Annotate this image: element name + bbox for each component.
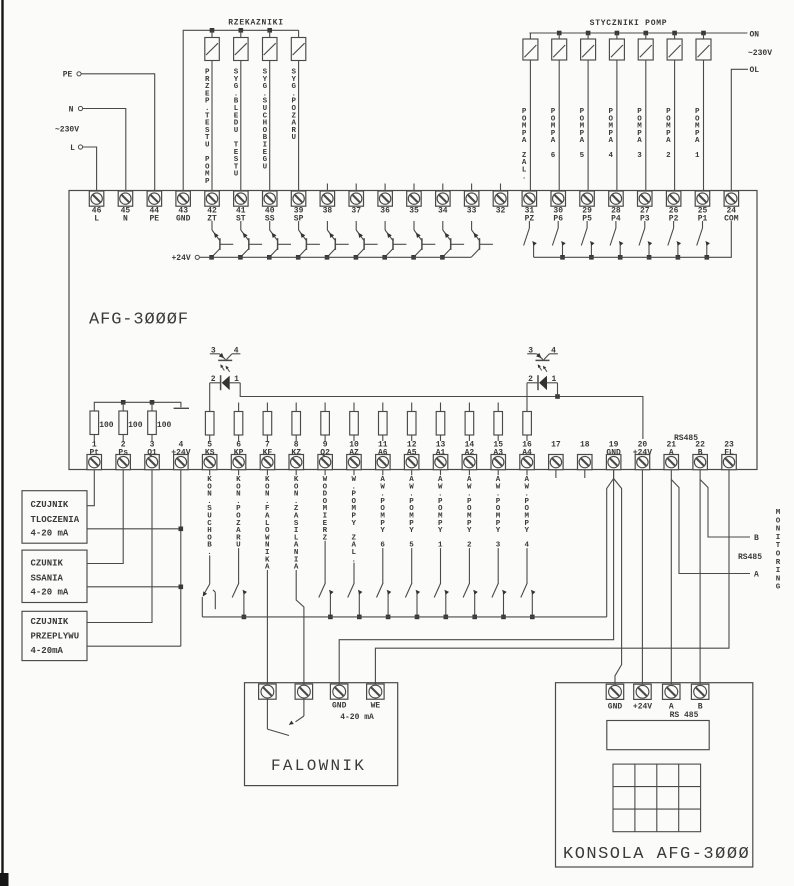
wire terminal 7 KF to FALOWNIK bbox=[266, 470, 268, 684]
terminal 24 COM bbox=[724, 191, 739, 224]
svg-text:KON.FALOWNIKA: KON.FALOWNIKA bbox=[265, 476, 270, 572]
wire terminal 22 B to console bbox=[699, 470, 701, 685]
label console A bbox=[669, 703, 674, 712]
switch contact KON.SUCHOB. (NC) bbox=[202, 584, 215, 617]
svg-text:4-20 mA: 4-20 mA bbox=[31, 529, 69, 539]
wire optocoupler U2 pin1 drop bbox=[557, 383, 559, 397]
label STYCZNIKI POMP bbox=[590, 19, 668, 28]
svg-text:B: B bbox=[698, 448, 703, 457]
wire bus to terminal 19 GND bbox=[607, 470, 614, 617]
wire input A6 terminal 11 bbox=[382, 470, 384, 584]
output transistor Q40 at terminal 40 bbox=[267, 221, 291, 260]
svg-text:A1: A1 bbox=[436, 448, 446, 457]
svg-text:SSANIA: SSANIA bbox=[31, 574, 64, 584]
svg-text:FL: FL bbox=[724, 448, 734, 457]
wire input A1 terminal 13 bbox=[440, 470, 442, 584]
relay contact P5 at terminal 29 bbox=[581, 221, 594, 260]
terminal 25 P1 bbox=[695, 191, 710, 224]
terminal 4 +24V bbox=[171, 441, 190, 470]
svg-text:WE: WE bbox=[371, 702, 381, 711]
output transistor Q42 at terminal 42 bbox=[209, 221, 233, 260]
wire terminal 1 Pt to sensor 1 bbox=[87, 470, 94, 506]
wire stub below terminal 18 bbox=[584, 470, 586, 478]
wire input KS terminal 5 bbox=[209, 470, 211, 584]
svg-text:37: 37 bbox=[351, 207, 361, 216]
terminal 5 KS bbox=[202, 441, 217, 470]
relay contact PZ at terminal 31 bbox=[524, 221, 537, 257]
terminal 8 KZ bbox=[289, 441, 304, 470]
svg-text:AFG-3ØØØF: AFG-3ØØØF bbox=[89, 311, 189, 330]
terminal 10 AZ bbox=[347, 441, 362, 470]
label monitoring B bbox=[754, 534, 759, 543]
label SYG.BLEDU TESTU bbox=[234, 69, 239, 179]
svg-text:PE: PE bbox=[149, 215, 159, 224]
label POMPA 1 bbox=[695, 108, 700, 160]
label POMPA 6 bbox=[551, 108, 556, 160]
output transistor Q39 at terminal 39 bbox=[296, 221, 320, 260]
output transistor Q34 at terminal 34 bbox=[440, 221, 464, 260]
resistor R3 100 at terminal 3 bbox=[148, 411, 172, 441]
console keypad 4x3 bbox=[613, 764, 701, 832]
wire stub below terminal 17 bbox=[555, 470, 557, 478]
svg-text:+24V: +24V bbox=[633, 703, 652, 712]
svg-text:100: 100 bbox=[128, 421, 143, 430]
resistor R13 input pull-up terminal 13 bbox=[436, 403, 445, 442]
terminal 23 FL bbox=[722, 441, 737, 470]
label POMPA 5 bbox=[580, 108, 585, 160]
svg-text:100: 100 bbox=[157, 421, 172, 430]
wire input Q2 terminal 9 bbox=[324, 470, 326, 584]
label POMPA 4 bbox=[608, 108, 613, 160]
relay contact P6 at terminal 30 bbox=[552, 221, 565, 260]
terminal 16 A4 bbox=[520, 441, 535, 470]
label KONSOLA AFG-3000 bbox=[563, 845, 750, 864]
wire L to terminal 46 bbox=[83, 147, 97, 191]
svg-text:CZUJNIK: CZUJNIK bbox=[31, 617, 69, 627]
node N bbox=[69, 106, 83, 115]
label RZEKAZNIKI bbox=[228, 19, 284, 28]
svg-text:PE: PE bbox=[63, 71, 73, 80]
svg-text:GND: GND bbox=[332, 702, 347, 711]
svg-text:POMPA 3: POMPA 3 bbox=[637, 108, 642, 160]
switch contact KON.POZARU bbox=[232, 584, 247, 620]
inverter FALOWNIK box bbox=[245, 683, 398, 786]
svg-text:MONITORING: MONITORING bbox=[776, 509, 781, 592]
svg-text:Pt: Pt bbox=[89, 448, 99, 457]
svg-text:POMPA 2: POMPA 2 bbox=[666, 108, 671, 160]
label POMPA 2 bbox=[666, 108, 671, 160]
terminal 30 P6 bbox=[551, 191, 566, 224]
terminal 19 GND bbox=[606, 441, 621, 470]
svg-text:KON.ZASILANIA: KON.ZASILANIA bbox=[294, 476, 299, 572]
label console RS 485 bbox=[670, 711, 699, 720]
console LCD display bbox=[607, 721, 709, 750]
wire contactor bus ~230V ON bbox=[529, 32, 747, 34]
terminal 17 bbox=[549, 441, 564, 470]
contactor coil POMPA 5 bbox=[581, 31, 596, 191]
svg-text:35: 35 bbox=[409, 207, 419, 216]
switch contact AW.POMPY 5 bbox=[405, 584, 420, 620]
svg-text:A: A bbox=[754, 571, 759, 580]
relay K4 SYG.POZARU bbox=[291, 30, 306, 191]
switch contact AW.POMPY 2 bbox=[463, 584, 478, 620]
terminal 45 N bbox=[118, 191, 133, 224]
svg-text:A4: A4 bbox=[522, 448, 532, 457]
terminal 40 SS bbox=[263, 191, 278, 224]
FALOWNIK terminal 1 bbox=[259, 684, 277, 699]
svg-text:38: 38 bbox=[323, 207, 333, 216]
resistor R14 input pull-up terminal 14 bbox=[465, 403, 474, 442]
wire input A5 terminal 12 bbox=[411, 470, 413, 584]
label KON.FALOWNIKA bbox=[264, 475, 270, 571]
terminal 37 bbox=[349, 191, 364, 216]
label KON.SUCHOB. bbox=[207, 475, 213, 557]
terminal 21 A bbox=[664, 441, 679, 470]
terminal 36 bbox=[378, 191, 393, 216]
label monitoring A bbox=[754, 571, 759, 580]
wire relay bus from terminal 43 GND bbox=[183, 30, 298, 191]
controller AFG-3000F outline bbox=[69, 191, 757, 470]
svg-text:N: N bbox=[69, 106, 74, 115]
wire terminal 3 Q1 to sensor 3 bbox=[87, 470, 152, 623]
wire stub above terminal 34 bbox=[442, 184, 444, 192]
svg-text:Q1: Q1 bbox=[147, 448, 157, 457]
node L bbox=[70, 144, 83, 153]
contactor coil POMPA 3 bbox=[638, 31, 653, 191]
svg-text:TLOCZENIA: TLOCZENIA bbox=[31, 515, 80, 525]
output transistor Q38 at terminal 38 bbox=[325, 221, 349, 260]
terminal 28 P4 bbox=[609, 191, 624, 224]
svg-text:RS485: RS485 bbox=[738, 553, 762, 562]
label console B bbox=[698, 703, 703, 712]
label AW.POMPY 4 bbox=[524, 475, 530, 550]
svg-text:STYCZNIKI POMP: STYCZNIKI POMP bbox=[590, 19, 668, 28]
wire input AZ terminal 10 bbox=[353, 470, 355, 584]
terminal 27 P3 bbox=[638, 191, 653, 224]
svg-text:SYG.POZARU: SYG.POZARU bbox=[292, 69, 297, 143]
FALOWNIK terminal 4 bbox=[367, 684, 385, 699]
svg-text:KZ: KZ bbox=[291, 448, 301, 457]
svg-text:OL: OL bbox=[750, 66, 760, 75]
terminal 34 bbox=[436, 191, 451, 216]
terminal 42 ZT bbox=[205, 191, 220, 224]
svg-text:POMPA ZAL.: POMPA ZAL. bbox=[522, 108, 527, 182]
terminal 33 bbox=[464, 191, 479, 216]
svg-text:KON.SUCHOB.: KON.SUCHOB. bbox=[207, 476, 212, 557]
label ~230V left bbox=[55, 126, 79, 135]
label POMPA ZAL. bbox=[522, 108, 527, 182]
svg-text:4-20 mA: 4-20 mA bbox=[340, 713, 374, 722]
terminal 9 Q2 bbox=[318, 441, 333, 470]
svg-text:17: 17 bbox=[551, 441, 561, 450]
wire supply to sensor 1 bbox=[87, 527, 183, 532]
svg-text:FALOWNIK: FALOWNIK bbox=[271, 757, 366, 775]
resistor R5 input pull-up terminal 5 bbox=[205, 412, 214, 442]
switch contact AW.POMPY 4 bbox=[521, 584, 536, 620]
terminal 44 PE bbox=[147, 191, 162, 224]
sensor box CZUNIK SSANIA bbox=[22, 550, 87, 602]
wire optocoupler LED supply to terminal 20 +24V bbox=[240, 383, 643, 439]
label SYG.POZARU bbox=[292, 69, 297, 143]
svg-text:L: L bbox=[94, 215, 99, 224]
relay contact P1 at terminal 25 bbox=[697, 221, 710, 260]
label AW.POMPY 1 bbox=[437, 475, 443, 550]
wire terminal 19 GND to FALOWNIK GND bbox=[339, 470, 613, 684]
svg-text:GND: GND bbox=[608, 703, 623, 712]
terminal 7 KF bbox=[260, 441, 275, 470]
terminal 13 A1 bbox=[433, 441, 448, 470]
label RS485 (terminals 21-22) bbox=[674, 434, 698, 443]
svg-text:A3: A3 bbox=[493, 448, 503, 457]
svg-text:AW.POMPY 3: AW.POMPY 3 bbox=[496, 476, 501, 550]
label FALOWNIK bbox=[271, 757, 366, 775]
svg-text:KONSOLA AFG-3ØØØ: KONSOLA AFG-3ØØØ bbox=[563, 845, 750, 864]
switch contact AW.POMPY 1 bbox=[434, 584, 449, 620]
svg-text:32: 32 bbox=[496, 207, 506, 216]
svg-text:100: 100 bbox=[99, 421, 114, 430]
terminal 39 SP bbox=[291, 191, 306, 224]
label WODOMIERZ bbox=[322, 475, 328, 542]
terminal 22 B bbox=[693, 441, 708, 470]
console terminal GND bbox=[606, 684, 624, 699]
label console +24V bbox=[633, 703, 652, 712]
svg-text:AW.POMPY 5: AW.POMPY 5 bbox=[409, 476, 414, 550]
svg-text:KF: KF bbox=[263, 448, 273, 457]
wire stub above terminal 36 bbox=[384, 184, 386, 192]
svg-text:RZEKAZNIKI: RZEKAZNIKI bbox=[228, 19, 284, 28]
console KONSOLA AFG-3000 box bbox=[556, 683, 753, 867]
wire stub above terminal 38 bbox=[326, 184, 328, 192]
svg-text:L: L bbox=[70, 144, 75, 153]
svg-text:AW.POMPY 1: AW.POMPY 1 bbox=[438, 476, 443, 550]
svg-text:Q2: Q2 bbox=[320, 448, 330, 457]
wire input A4 terminal 16 bbox=[526, 470, 528, 584]
wire terminal 8 KZ to FALOWNIK bbox=[296, 470, 304, 684]
FALOWNIK terminal 3 bbox=[330, 684, 348, 699]
wire FALOWNIK WE to terminal 23 FL bbox=[375, 470, 729, 684]
label ON bbox=[750, 31, 760, 40]
svg-text:PRZEPLYWU: PRZEPLYWU bbox=[31, 632, 80, 642]
svg-text:4-20mA: 4-20mA bbox=[31, 646, 64, 656]
sensor box CZUJNIK TLOCZENIA bbox=[22, 491, 87, 544]
svg-text:33: 33 bbox=[467, 207, 477, 216]
resistor R9 input pull-up terminal 9 bbox=[321, 403, 330, 442]
switch contact WODOMIERZ bbox=[319, 584, 334, 620]
terminal 31 PZ bbox=[522, 191, 537, 224]
label AW.POMPY 5 bbox=[409, 475, 415, 550]
scan border left edge bbox=[0, 0, 9, 886]
wire terminal 4 +24V sensor supply bbox=[180, 470, 182, 647]
relay contact P2 at terminal 26 bbox=[668, 221, 681, 260]
label PRZEP.TESTU POMP bbox=[205, 69, 210, 187]
svg-text:+24V: +24V bbox=[172, 254, 191, 263]
svg-text:POMPA 1: POMPA 1 bbox=[695, 108, 700, 160]
terminal 35 bbox=[407, 191, 422, 216]
label FALOWNIK WE bbox=[371, 702, 381, 711]
svg-text:A2: A2 bbox=[465, 448, 475, 457]
terminal 38 bbox=[320, 191, 335, 216]
relay K3 SYG.SUCHOBIEGU bbox=[263, 28, 278, 191]
terminal 29 P5 bbox=[580, 191, 595, 224]
label MONITORING bbox=[776, 509, 781, 592]
label ~230V right bbox=[748, 49, 772, 58]
node PE bbox=[63, 71, 81, 80]
svg-text:AW.POMPY 2: AW.POMPY 2 bbox=[467, 476, 472, 550]
label AW.POMPY 3 bbox=[495, 475, 501, 550]
resistor R16 input pull-up terminal 16 bbox=[523, 412, 532, 442]
wire stub above terminal 32 bbox=[500, 184, 502, 192]
wire terminal 19 GND to console GND bbox=[614, 479, 622, 685]
label console GND bbox=[608, 703, 623, 712]
relay K1 PRZEP.TESTU POMP bbox=[205, 28, 220, 191]
svg-text:A6: A6 bbox=[378, 448, 388, 457]
output transistor Q37 at terminal 37 bbox=[354, 221, 378, 260]
resistor R12 input pull-up terminal 12 bbox=[407, 403, 416, 442]
label SYG.SUCHOBIEGU bbox=[263, 69, 268, 172]
svg-text:~230V: ~230V bbox=[748, 49, 772, 58]
svg-text:PRZEP.TESTU POMP: PRZEP.TESTU POMP bbox=[205, 69, 210, 187]
svg-text:KP: KP bbox=[234, 448, 244, 457]
svg-text:CZUJNIK: CZUJNIK bbox=[31, 500, 69, 510]
resistor R6 input pull-up terminal 6 bbox=[234, 403, 243, 442]
terminal 11 A6 bbox=[376, 441, 391, 470]
wire terminal 2 Ps to sensor 2 bbox=[87, 470, 123, 564]
wire supply to sensor 2 bbox=[87, 585, 183, 590]
svg-text:4-20 mA: 4-20 mA bbox=[31, 588, 69, 598]
resistor R7 input pull-up terminal 7 bbox=[263, 403, 272, 442]
resistor R11 input pull-up terminal 11 bbox=[379, 403, 388, 442]
switch contact W.POMPY ZAL. bbox=[348, 584, 363, 620]
terminal 26 P2 bbox=[666, 191, 681, 224]
label FALOWNIK GND bbox=[332, 702, 347, 711]
svg-text:+24V: +24V bbox=[171, 448, 190, 457]
label AW.POMPY 6 bbox=[380, 475, 386, 550]
svg-text:B: B bbox=[698, 703, 703, 712]
svg-text:W.POMPY ZAL.: W.POMPY ZAL. bbox=[352, 476, 357, 564]
wire OL to terminal 24 bbox=[731, 69, 748, 191]
wire input A2 terminal 14 bbox=[468, 470, 470, 584]
svg-text:36: 36 bbox=[380, 207, 390, 216]
resistor R8 input pull-up terminal 8 bbox=[292, 403, 301, 442]
contactor coil POMPA 2 bbox=[667, 31, 682, 191]
svg-text:34: 34 bbox=[438, 207, 448, 216]
wire input A3 terminal 15 bbox=[497, 470, 499, 584]
switch inside FALOWNIK bbox=[267, 699, 304, 735]
label KON.ZASILANIA bbox=[293, 475, 299, 571]
svg-text:ON: ON bbox=[750, 31, 760, 40]
svg-text:POMPA 4: POMPA 4 bbox=[608, 108, 613, 160]
terminal 41 ST bbox=[234, 191, 249, 224]
svg-text:WODOMIERZ: WODOMIERZ bbox=[323, 476, 328, 542]
svg-text:KS: KS bbox=[205, 448, 215, 457]
terminal 14 A2 bbox=[462, 441, 477, 470]
output transistor Q33 at terminal 33 bbox=[471, 221, 493, 257]
contactor coil POMPA 1 bbox=[696, 31, 711, 191]
wire RS485 A to monitoring bbox=[671, 480, 750, 574]
label RS485 monitoring bbox=[738, 553, 762, 562]
label W.POMPY ZAL. bbox=[351, 475, 357, 564]
relay K2 SYG.BLEDU TESTU bbox=[234, 28, 249, 191]
svg-text:SYG.BLEDU TESTU: SYG.BLEDU TESTU bbox=[234, 69, 239, 179]
contactor coil POMPA 4 bbox=[609, 31, 624, 191]
op-amp/optocoupler U1 (terminal 5 KS) bbox=[210, 346, 241, 411]
svg-text:AW.POMPY 6: AW.POMPY 6 bbox=[380, 476, 385, 550]
svg-text:Ps: Ps bbox=[118, 448, 128, 457]
switch contact AW.POMPY 3 bbox=[492, 584, 507, 620]
contactor coil POMPA 6 bbox=[552, 31, 567, 191]
svg-text:~230V: ~230V bbox=[55, 126, 79, 135]
console terminal A bbox=[663, 684, 681, 699]
console terminal +24V bbox=[634, 684, 652, 699]
sensor box CZUJNIK PRZEPLYWU bbox=[22, 611, 87, 660]
wire N to terminal 45 bbox=[83, 109, 126, 192]
svg-text:POMPA 5: POMPA 5 bbox=[580, 108, 585, 160]
console terminal B bbox=[691, 684, 709, 699]
wire resistor common with +24V tap bbox=[94, 400, 189, 411]
output transistor Q36 at terminal 36 bbox=[382, 221, 406, 260]
svg-text:GND: GND bbox=[176, 215, 191, 224]
resistor R2 100 at terminal 2 bbox=[119, 411, 143, 441]
output transistor Q41 at terminal 41 bbox=[238, 221, 262, 260]
terminal 20 +24V bbox=[633, 441, 652, 470]
relay contact P3 at terminal 27 bbox=[639, 221, 652, 260]
terminal 32 bbox=[493, 191, 508, 216]
svg-text:AZ: AZ bbox=[349, 448, 359, 457]
contact common bus to terminal 24 COM bbox=[534, 221, 732, 257]
wire RS485 B to monitoring bbox=[700, 480, 750, 538]
relay contact P4 at terminal 28 bbox=[610, 221, 623, 260]
terminal 46 L bbox=[89, 191, 104, 224]
terminal 2 Ps bbox=[116, 441, 130, 470]
terminal 12 A5 bbox=[404, 441, 419, 470]
terminal 43 GND bbox=[176, 191, 191, 224]
resistor R1 100 at terminal 1 bbox=[90, 411, 114, 441]
input common bus GND bbox=[202, 616, 606, 618]
wire supply to sensor 3 bbox=[87, 645, 181, 647]
switch contact AW.POMPY 6 bbox=[377, 584, 392, 620]
wire PE to terminal 44 bbox=[81, 74, 154, 191]
FALOWNIK terminal 2 bbox=[295, 684, 313, 699]
terminal 15 A3 bbox=[491, 441, 506, 470]
svg-text:AW.POMPY 4: AW.POMPY 4 bbox=[525, 476, 530, 550]
resistor R15 input pull-up terminal 15 bbox=[494, 403, 503, 442]
svg-text:SYG.SUCHOBIEGU: SYG.SUCHOBIEGU bbox=[263, 69, 268, 172]
wire stub above terminal 37 bbox=[355, 184, 357, 192]
optocoupler U2 (terminal 16 A4) bbox=[527, 346, 558, 411]
svg-text:A: A bbox=[669, 448, 674, 457]
svg-text:18: 18 bbox=[580, 441, 590, 450]
svg-text:CZUNIK: CZUNIK bbox=[31, 559, 64, 569]
svg-text:KON.POZARU: KON.POZARU bbox=[236, 476, 241, 550]
wire terminal 20 +24V to console bbox=[641, 470, 643, 685]
label AFG-3000F bbox=[89, 311, 189, 330]
+24V rail for outputs bbox=[172, 254, 472, 263]
resistor R10 input pull-up terminal 10 bbox=[350, 403, 359, 442]
label FALOWNIK 4-20 mA bbox=[340, 713, 374, 722]
wire terminal 21 A to console bbox=[670, 470, 672, 685]
svg-text:POMPA 6: POMPA 6 bbox=[551, 108, 556, 160]
contactor coil POMPA ZAL. bbox=[523, 33, 538, 191]
label KON.POZARU bbox=[236, 475, 242, 550]
svg-text:GND: GND bbox=[606, 448, 621, 457]
output transistor Q35 at terminal 35 bbox=[411, 221, 435, 260]
label AW.POMPY 2 bbox=[466, 475, 472, 550]
terminal 18 bbox=[578, 441, 593, 470]
svg-text:RS 485: RS 485 bbox=[670, 711, 699, 720]
label POMPA 3 bbox=[637, 108, 642, 160]
wire stub above terminal 33 bbox=[471, 184, 473, 192]
svg-text:B: B bbox=[754, 534, 759, 543]
